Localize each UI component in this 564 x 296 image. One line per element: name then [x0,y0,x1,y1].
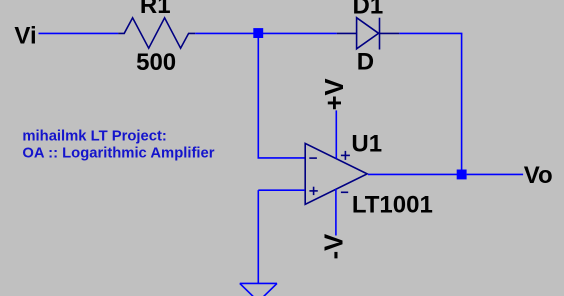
svg-text:Vi: Vi [14,22,36,49]
svg-text:500: 500 [136,49,176,76]
svg-text:U1: U1 [351,130,382,157]
wire noninverting input [258,189,305,191]
wire corner down to output junction [461,33,463,174]
junction node at output [457,170,467,180]
junction node at R1/opamp [253,28,263,38]
wire +V pin [335,110,337,158]
ground [240,283,277,296]
svg-text:D1: D1 [353,0,384,20]
svg-text:D: D [357,48,374,75]
svg-text:-V: -V [321,234,349,260]
resistor R1 [118,18,195,48]
diode D1 [337,18,400,50]
wire junction down to inverting input [258,38,305,158]
svg-text:R1: R1 [140,0,171,19]
wire Vi to R1 [39,32,119,34]
svg-text:LT1001: LT1001 [352,191,433,218]
svg-text:+V: +V [321,78,349,110]
svg-text:Vo: Vo [524,162,553,189]
wire junction to Vo [467,173,523,175]
svg-text:mihailmk LT Project:: mihailmk LT Project: [22,129,166,145]
wire opamp output [368,173,462,175]
op-amp U1 [305,143,367,204]
wire noninverting down to ground [257,190,259,283]
svg-text:OA :: Logarithmic Amplifier: OA :: Logarithmic Amplifier [22,145,214,161]
wire diode to corner [399,32,462,34]
wire R1 to diode [195,32,337,34]
wire -V pin [335,189,337,236]
